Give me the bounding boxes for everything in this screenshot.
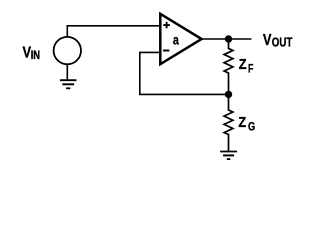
ground (ZG) bbox=[220, 152, 237, 160]
resistor ZF bbox=[224, 39, 233, 94]
svg-text:F: F bbox=[248, 61, 253, 75]
wire (source to op-amp + input) bbox=[67, 26, 160, 37]
op-amp U1 bbox=[160, 14, 201, 64]
svg-text:Z: Z bbox=[239, 57, 247, 73]
op-amp + input marker bbox=[163, 22, 170, 28]
op-amp - input marker bbox=[163, 50, 169, 52]
label ZF bbox=[239, 57, 254, 75]
svg-text:Z: Z bbox=[238, 115, 246, 131]
label VIN bbox=[23, 45, 41, 63]
voltage source VIN bbox=[54, 37, 81, 64]
wire (feedback to - input) bbox=[140, 52, 225, 94]
svg-text:IN: IN bbox=[31, 49, 40, 62]
wire (source bottom lead) bbox=[66, 64, 68, 80]
svg-text:G: G bbox=[248, 120, 255, 134]
resistor ZG bbox=[224, 94, 233, 151]
svg-text:V: V bbox=[263, 32, 272, 49]
ground (source) bbox=[60, 80, 77, 88]
wire (op-amp output) bbox=[202, 38, 252, 40]
label VOUT bbox=[263, 32, 293, 50]
svg-text:OUT: OUT bbox=[272, 34, 293, 49]
label ZG bbox=[238, 115, 255, 134]
node (feedback junction) bbox=[225, 91, 232, 98]
svg-text:a: a bbox=[173, 33, 179, 48]
node (output junction) bbox=[225, 35, 232, 42]
